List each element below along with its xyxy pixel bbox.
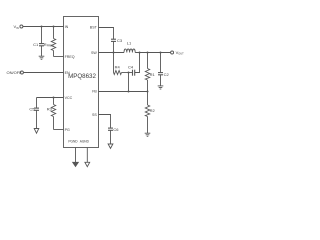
ground (AGND, open arrow): [85, 162, 90, 166]
svg-text:R1: R1: [150, 72, 156, 77]
svg-text:R2: R2: [150, 108, 156, 113]
wire SW node down for ripple network: [113, 53, 115, 73]
svg-text:SW: SW: [91, 51, 97, 55]
svg-text:VCC: VCC: [65, 96, 73, 100]
IC U1 MPQ8632 body: [64, 17, 99, 148]
capacitor C2 (output): [158, 53, 163, 86]
capacitor C3 (BST): [111, 39, 116, 52]
svg-text:ON/OFF: ON/OFF: [7, 70, 23, 75]
wire L1 to VOUT: [135, 52, 170, 54]
wire C4 to output rail: [135, 53, 140, 73]
node R4/C4 tap: [128, 72, 130, 74]
wire R4 to C4: [122, 72, 133, 74]
svg-text:MPQ8632: MPQ8632: [68, 73, 96, 80]
node FB divider: [147, 91, 149, 93]
resistor R2: [145, 92, 149, 134]
wire VCC: [37, 97, 64, 99]
node SW/L1: [113, 52, 115, 54]
ground (C2, bar style): [158, 86, 164, 89]
terminal VIN: [20, 25, 23, 28]
capacitor C5 (VCC): [34, 98, 39, 129]
resistor R3: [51, 98, 55, 130]
node C2 top: [160, 52, 162, 54]
wire VIN to IN pin: [23, 26, 64, 28]
wire EN: [24, 72, 64, 74]
capacitor C6 (SS): [108, 128, 113, 144]
node RFREQ tap: [53, 26, 55, 28]
svg-text:AGND: AGND: [80, 140, 90, 144]
resistor R1: [145, 53, 149, 92]
ground (C6, open arrow): [108, 144, 113, 148]
capacitor C1: [39, 27, 44, 57]
wire tap junction to FB line: [128, 73, 130, 92]
wire SW rail: [99, 52, 125, 54]
ground (R2, bar style): [145, 133, 151, 136]
node R3 tap: [53, 97, 55, 99]
svg-text:C6: C6: [113, 127, 119, 132]
ground (C1, bar style): [39, 56, 45, 59]
svg-text:PGND: PGND: [68, 140, 78, 144]
node C1 tap: [41, 26, 43, 28]
svg-text:R3: R3: [47, 107, 53, 112]
ground (C5, arrow style): [34, 129, 39, 134]
svg-text:FREQ: FREQ: [65, 55, 75, 59]
svg-text:C2: C2: [164, 72, 170, 77]
node FB tap: [128, 91, 130, 93]
wire PGND: [75, 148, 77, 163]
ground (PGND, filled arrow): [73, 162, 79, 166]
resistor RFREQ: [51, 27, 55, 57]
wire AGND: [86, 148, 88, 163]
wire SS pin: [99, 115, 111, 128]
svg-text:SS: SS: [92, 113, 97, 117]
wire RFREQ to FREQ pin: [54, 56, 64, 58]
wire R3 to PG pin: [54, 129, 64, 131]
node R1 top: [147, 52, 149, 54]
svg-text:C3: C3: [117, 38, 123, 43]
wire BST: [99, 28, 114, 40]
svg-text:BST: BST: [90, 26, 98, 30]
svg-text:L1: L1: [127, 41, 132, 46]
wire FB line: [99, 91, 148, 93]
capacitor C4 (horizontal): [133, 70, 135, 76]
node junction dots: [41, 26, 162, 99]
resistor R4 (horizontal): [114, 71, 122, 75]
node L1 out: [139, 52, 141, 54]
svg-text:C5: C5: [29, 107, 35, 112]
svg-text:IN: IN: [65, 25, 69, 29]
svg-text:R4: R4: [115, 64, 121, 69]
terminal VOUT: [171, 51, 174, 54]
inductor L1: [124, 49, 135, 53]
svg-text:PG: PG: [65, 128, 70, 132]
terminal ON/OFF: [20, 71, 23, 74]
svg-text:C4: C4: [128, 64, 134, 69]
svg-text:C1: C1: [33, 42, 39, 47]
svg-text:FB: FB: [92, 90, 97, 94]
